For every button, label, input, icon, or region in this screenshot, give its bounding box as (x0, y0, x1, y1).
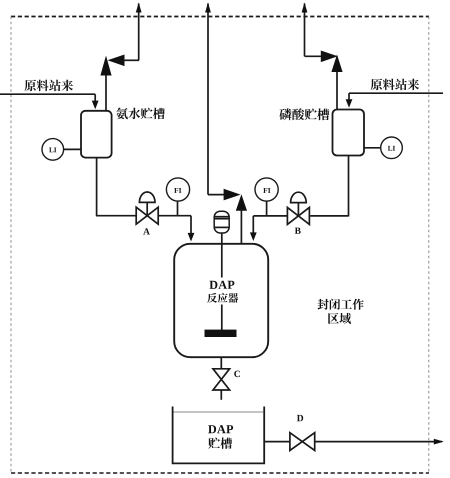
wire FI left to pipe (177, 201, 179, 216)
ammonia water storage tank 氨水贮槽 (81, 111, 112, 158)
pipe to valve B (310, 215, 348, 217)
label LI left (49, 147, 56, 152)
wire center vent horizontal (208, 194, 226, 196)
control valve B (287, 207, 309, 224)
right feed line from raw material station (349, 92, 443, 94)
pipe to valve A (96, 215, 136, 217)
label DAP reactor (209, 281, 234, 289)
label A (143, 228, 150, 234)
pipe valve A to reactor (158, 215, 191, 217)
outlet arrow (434, 439, 444, 445)
enclosure dashed boundary top (11, 16, 429, 18)
valve A actuator stem (146, 202, 148, 216)
center vent outlet arrow (205, 3, 211, 13)
valve B actuator diaphragm (291, 192, 307, 202)
DAP storage tank 贮槽 (173, 407, 265, 464)
reactor outlet pipe (220, 357, 222, 369)
phosphoric acid storage tank 磷酸贮槽 (333, 110, 365, 156)
label C (234, 371, 240, 377)
label text 反应器 (207, 293, 238, 303)
control valve A (136, 207, 158, 224)
valve D (290, 433, 315, 451)
arrow into ammonia tank (92, 101, 99, 110)
fat arrow right (reactor vent bend) (224, 189, 241, 201)
arrow into reactor right (250, 232, 257, 241)
agitator shaft (221, 233, 223, 278)
label text 贮槽 (208, 437, 232, 448)
reactor vent line (240, 210, 242, 244)
agitator paddle (205, 330, 237, 337)
label text 原料站来 left (25, 80, 74, 92)
wire vent bend to riser (305, 55, 322, 57)
level indicator LI left (42, 139, 64, 161)
arrow into reactor left (188, 233, 195, 242)
left vent riser (138, 4, 140, 61)
ammonia tank outlet pipe (96, 158, 98, 217)
right vent riser (304, 4, 306, 57)
fat arrow right (phosphoric vent bend) (321, 51, 338, 63)
pipe into DAP storage tank (220, 390, 222, 400)
fat arrow up (phosphoric vent) (331, 55, 342, 73)
valve C (213, 369, 230, 390)
valve A actuator diaphragm (139, 192, 155, 202)
valve B actuator stem (297, 202, 299, 216)
right vent outlet arrow (302, 3, 308, 13)
label text 磷酸贮槽 (279, 108, 329, 120)
phosphoric tank outlet pipe (348, 156, 350, 217)
label LI right (388, 146, 395, 151)
flow indicator FI right (255, 178, 278, 201)
wire vent bend to riser (123, 59, 139, 61)
flow indicator FI left (166, 178, 189, 201)
vent line from phosphoric tank up (336, 71, 338, 110)
label FI right (263, 188, 270, 193)
DAP reactor vessel (174, 244, 268, 357)
wire LI to tank (64, 148, 81, 150)
wire LI to tank (364, 147, 381, 149)
level indicator LI right (381, 137, 403, 159)
outlet line to right (315, 441, 442, 443)
label text 氨水贮槽 (116, 108, 165, 120)
fat arrow up (ammonia vent) (100, 56, 111, 76)
label DAP storage (208, 425, 233, 433)
agitator motor (214, 211, 229, 233)
arrow into phosphoric tank (346, 99, 353, 108)
left vent outlet arrow (136, 3, 142, 13)
label text 封闭工作 (318, 299, 364, 310)
fat arrow left (ammonia vent bend) (108, 55, 125, 67)
enclosure dashed boundary right (428, 17, 430, 474)
label text 原料站来 right (371, 79, 420, 91)
pipe valve B to reactor (253, 215, 287, 217)
enclosure dashed boundary left (10, 17, 12, 474)
DAP tank outlet pipe (264, 441, 290, 443)
label D (297, 415, 303, 421)
wire FI right to pipe (266, 201, 268, 216)
vent line from ammonia tank up (105, 73, 107, 111)
left feed line from raw material station (0, 93, 95, 95)
enclosure dashed boundary bottom (11, 472, 429, 474)
liquid level line (174, 411, 264, 413)
fat arrow up (reactor vent) (236, 194, 247, 211)
label FI left (174, 188, 181, 193)
label B (295, 228, 301, 234)
label text 区域 (328, 313, 351, 324)
center vent riser (207, 4, 209, 195)
